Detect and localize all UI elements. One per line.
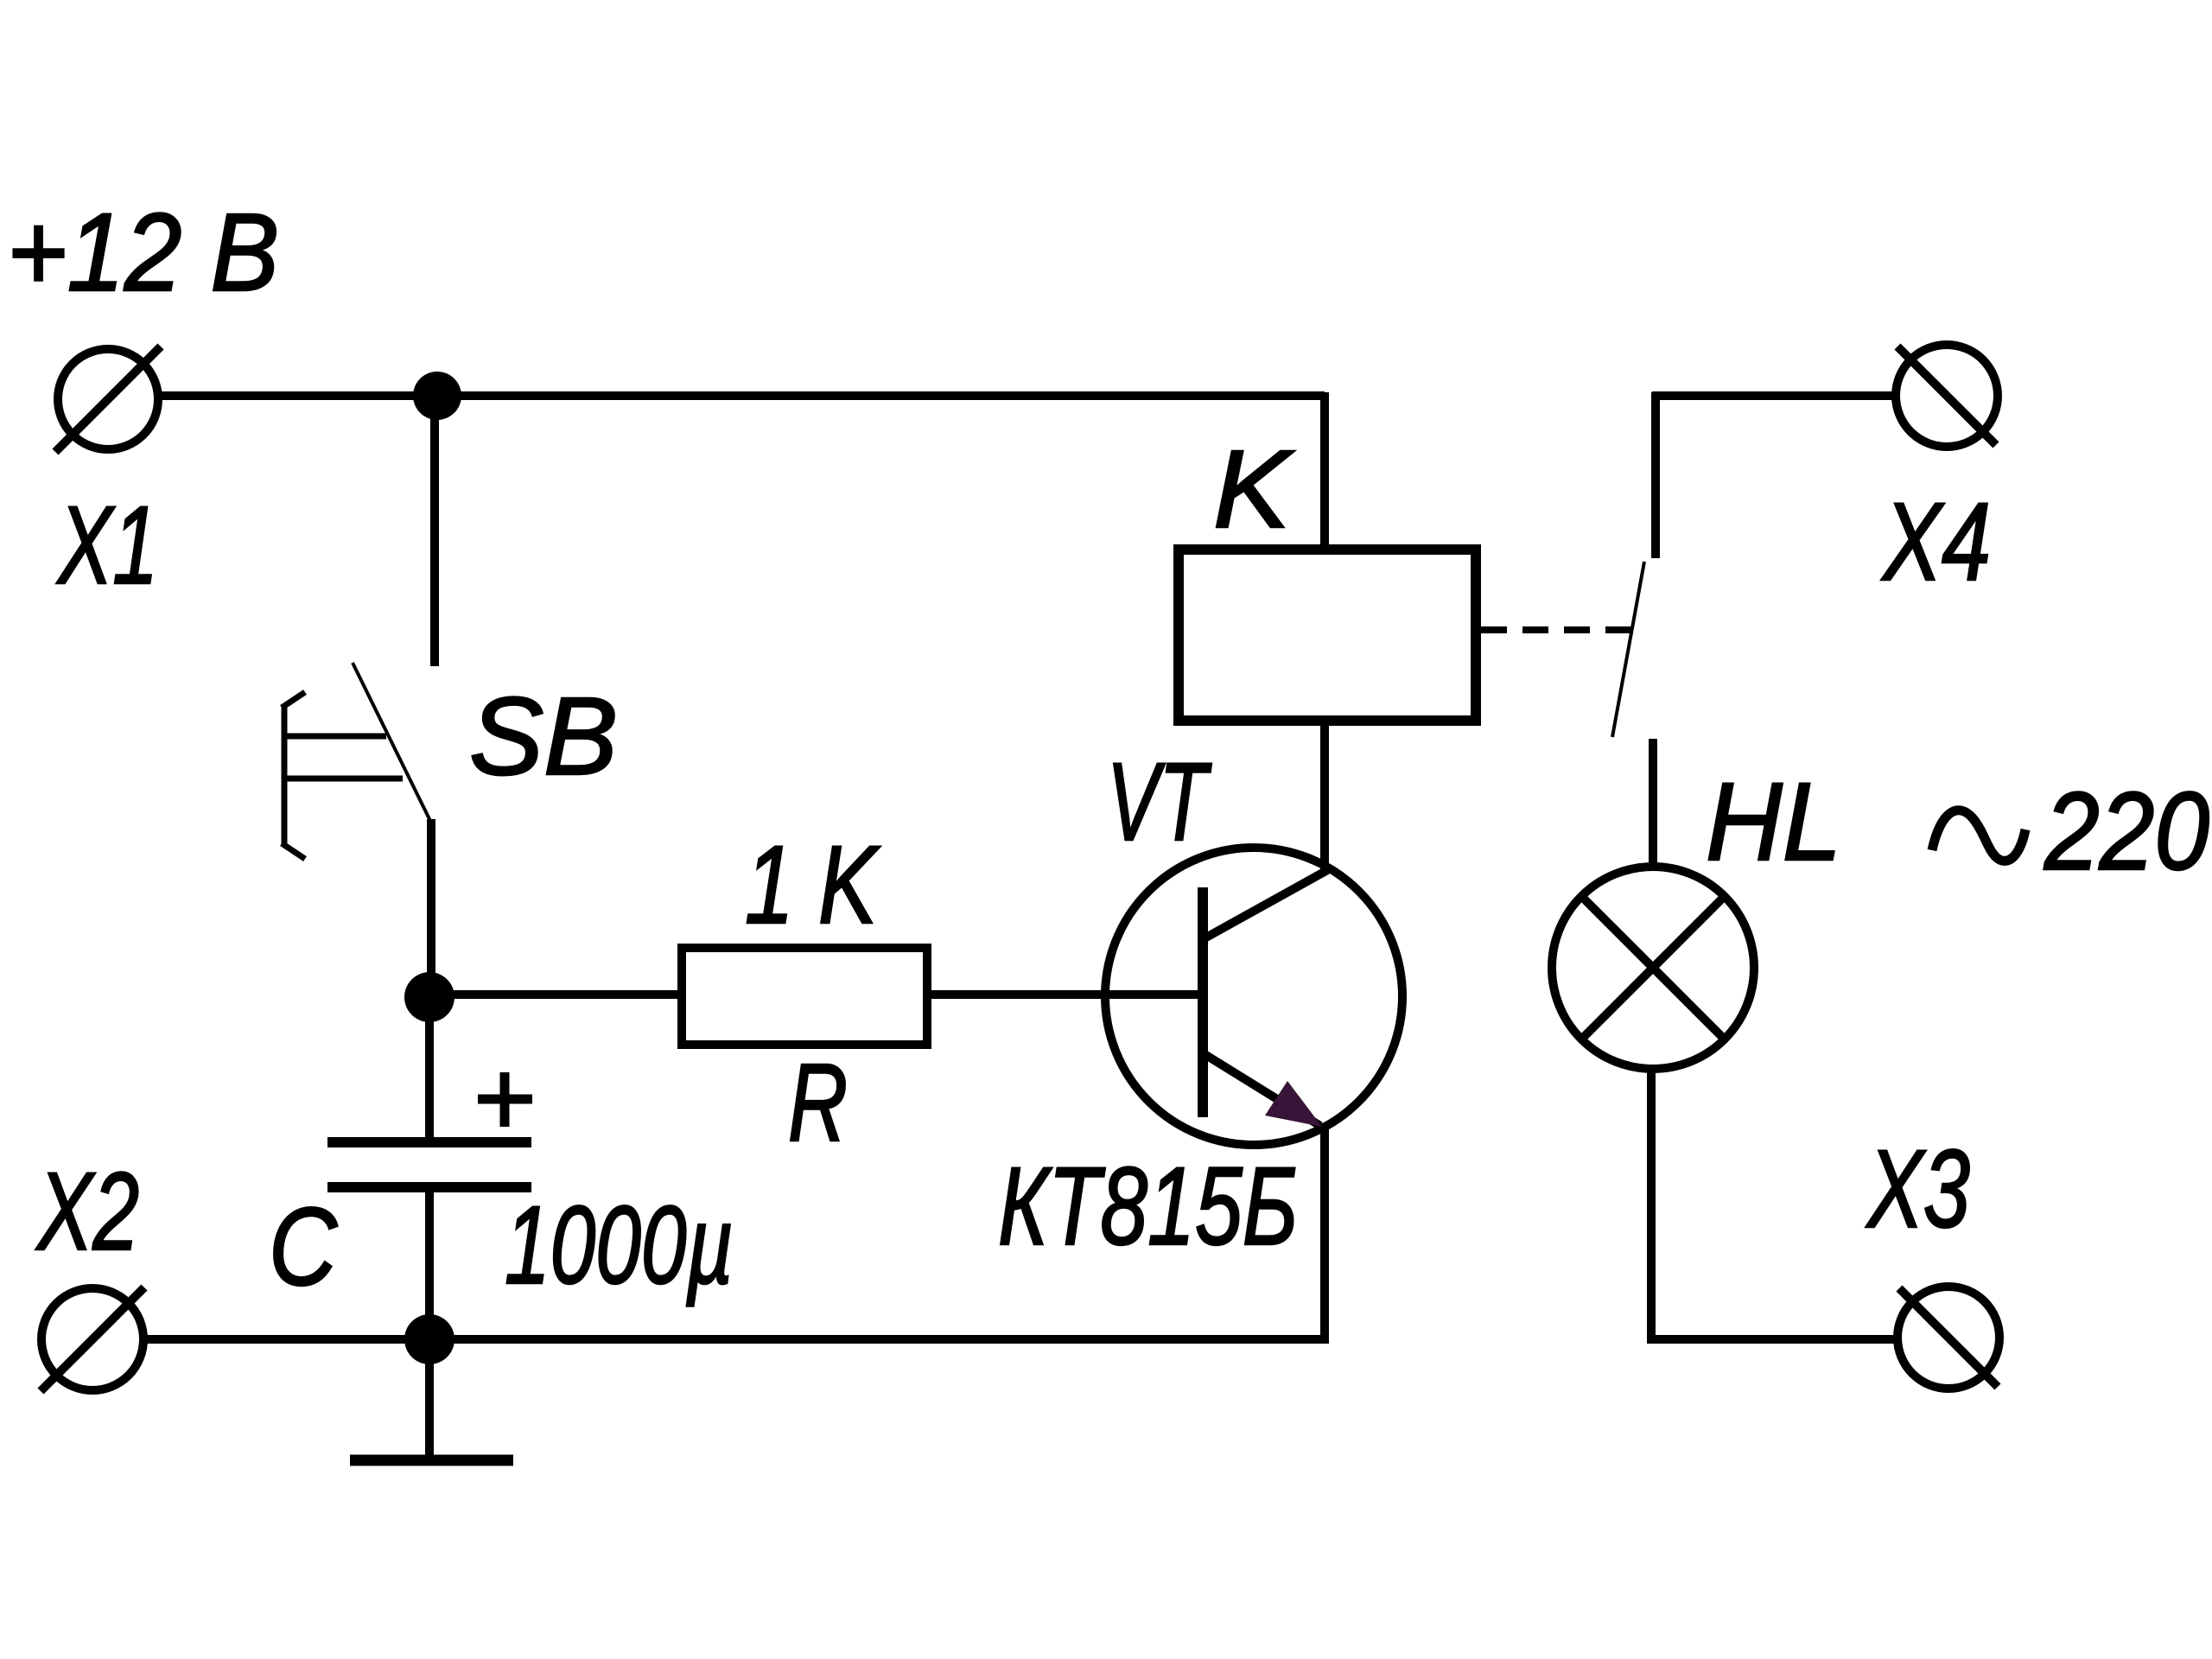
svg-text:R: R (788, 1041, 848, 1165)
svg-text:X3: X3 (1866, 1128, 1970, 1251)
svg-text:X1: X1 (56, 484, 158, 607)
svg-text:HL: HL (1706, 760, 1841, 884)
svg-text:C: C (269, 1185, 338, 1309)
svg-text:SB: SB (469, 675, 618, 798)
svg-text:X2: X2 (35, 1150, 139, 1274)
svg-text:1000µ: 1000µ (505, 1184, 734, 1307)
svg-text:КТ815Б: КТ815Б (998, 1145, 1298, 1268)
svg-text:220: 220 (2044, 770, 2209, 893)
svg-text:K: K (1213, 428, 1295, 551)
svg-text:+12 В: +12 В (7, 191, 279, 315)
svg-text:1 K: 1 K (745, 823, 880, 947)
svg-text:X4: X4 (1881, 480, 1991, 604)
svg-text:VT: VT (1107, 741, 1212, 864)
